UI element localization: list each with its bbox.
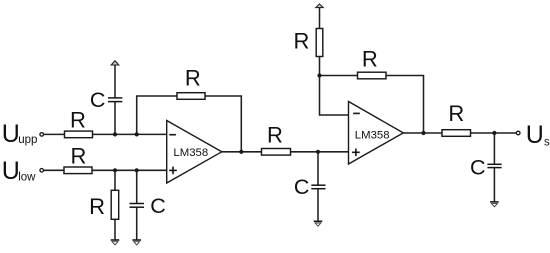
svg-text:LM358: LM358 — [355, 129, 390, 141]
svg-text:LM358: LM358 — [173, 147, 208, 159]
svg-text:U: U — [2, 157, 20, 185]
svg-text:upp: upp — [18, 134, 37, 146]
svg-text:U: U — [526, 121, 544, 149]
svg-text:R: R — [362, 47, 378, 72]
svg-text:C: C — [150, 194, 166, 218]
svg-text:low: low — [18, 172, 36, 184]
svg-text:U: U — [2, 120, 20, 148]
svg-text:R: R — [70, 143, 86, 168]
svg-text:R: R — [267, 123, 283, 148]
svg-text:R: R — [70, 107, 86, 132]
svg-text:R: R — [448, 101, 464, 126]
svg-text:C: C — [294, 175, 310, 199]
svg-text:R: R — [294, 28, 310, 53]
svg-text:C: C — [470, 155, 486, 179]
svg-text:R: R — [185, 65, 201, 90]
svg-text:C: C — [90, 88, 106, 112]
svg-text:s: s — [544, 136, 550, 148]
svg-text:R: R — [89, 194, 105, 219]
